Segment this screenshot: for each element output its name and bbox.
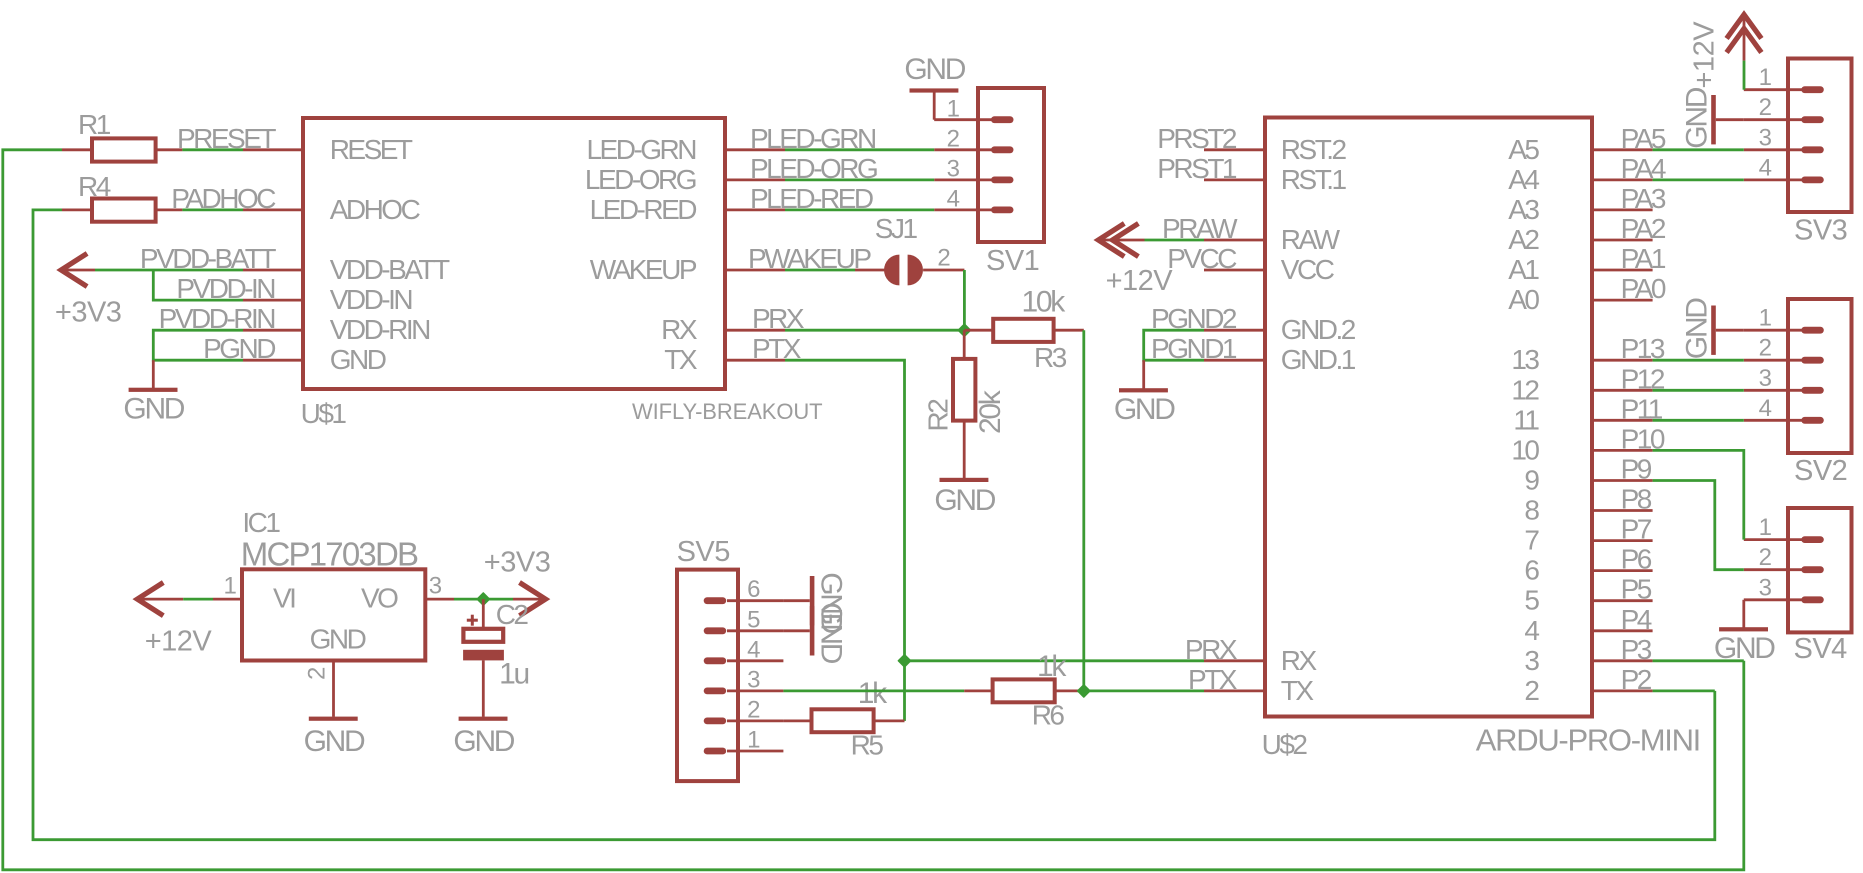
supply +12V arrow at U$2 RAW <box>1098 223 1124 256</box>
svg-text:P3: P3 <box>1621 634 1652 665</box>
svg-text:VDD-RIN: VDD-RIN <box>330 314 429 345</box>
svg-text:VDD-IN: VDD-IN <box>330 284 412 315</box>
svg-text:GND: GND <box>904 53 965 86</box>
svg-text:PA3: PA3 <box>1621 183 1666 214</box>
svg-text:ADHOC: ADHOC <box>330 194 421 225</box>
U$1 right pins <box>724 148 785 151</box>
SV3 pads <box>1801 86 1824 93</box>
svg-text:1: 1 <box>224 573 237 600</box>
svg-text:1: 1 <box>1759 305 1772 332</box>
svg-text:VI: VI <box>273 583 295 614</box>
svg-text:PRESET: PRESET <box>177 123 276 154</box>
svg-text:WIFLY-BREAKOUT: WIFLY-BREAKOUT <box>632 399 823 424</box>
svg-text:2: 2 <box>1524 675 1539 706</box>
svg-text:SV2: SV2 <box>1794 455 1847 487</box>
ground symbol below R2 <box>940 478 989 482</box>
supply +12V arrow above SV3 <box>1727 15 1762 39</box>
capacitor C2 (polarized) <box>482 599 485 629</box>
svg-text:P9: P9 <box>1621 454 1652 485</box>
svg-text:SJ1: SJ1 <box>875 213 918 244</box>
junction PTX-R6 node <box>1078 685 1090 697</box>
svg-text:2: 2 <box>937 245 950 272</box>
wire IC1 VO to C2 junction <box>454 598 513 601</box>
svg-text:1: 1 <box>1759 514 1772 541</box>
svg-text:20k: 20k <box>974 389 1007 434</box>
svg-text:5: 5 <box>747 606 760 633</box>
wire P3 net <box>1653 659 1744 662</box>
svg-text:4: 4 <box>1524 615 1539 646</box>
svg-text:U$2: U$2 <box>1262 729 1308 760</box>
wire PRESET net R1 to U$1 <box>182 148 243 151</box>
wire PVDD-IN branch <box>153 270 243 300</box>
svg-text:R1: R1 <box>78 109 111 140</box>
svg-text:GND: GND <box>1114 393 1175 426</box>
ground symbol below C2 <box>459 717 508 721</box>
ground symbol below U$2 GND pins <box>1142 360 1145 388</box>
svg-text:4: 4 <box>947 186 960 213</box>
wire PA4 net <box>1653 178 1744 181</box>
svg-text:6: 6 <box>1524 555 1539 586</box>
svg-text:GND: GND <box>934 484 995 517</box>
wire PWAKEUP net U$1 WAKEUP to SJ1 <box>785 269 855 272</box>
wire PRESET net R1 left to bottom loop to U$2 P3 <box>3 150 1744 870</box>
voltage regulator IC1 box <box>242 569 425 660</box>
svg-text:1: 1 <box>1759 64 1772 91</box>
IC1 pin 1 lead <box>213 598 242 601</box>
svg-text:PADHOC: PADHOC <box>171 183 276 214</box>
wire P9 net <box>1653 481 1744 570</box>
wire PRAW net <box>1145 239 1205 242</box>
resistor R5 <box>812 709 874 732</box>
junction PRX node <box>958 324 970 336</box>
svg-text:RAW: RAW <box>1281 224 1341 255</box>
resistor R4 <box>92 199 156 222</box>
svg-text:10: 10 <box>1511 434 1539 465</box>
svg-text:8: 8 <box>1524 495 1539 526</box>
wire SV5 pin 3 to R6 <box>783 690 964 693</box>
svg-text:P2: P2 <box>1621 664 1652 695</box>
resistor R2 <box>953 359 975 421</box>
svg-text:RST.1: RST.1 <box>1281 164 1347 195</box>
svg-text:A1: A1 <box>1508 254 1539 285</box>
svg-text:5: 5 <box>1524 585 1539 616</box>
ground symbol below U$1 <box>152 360 155 388</box>
svg-text:7: 7 <box>1524 525 1539 556</box>
svg-text:R4: R4 <box>78 171 111 202</box>
U$2 right pins <box>1591 148 1653 151</box>
supply +3V3 arrow right <box>520 583 546 616</box>
svg-text:P4: P4 <box>1621 604 1652 635</box>
connector SV2 box <box>1788 299 1852 453</box>
svg-text:9: 9 <box>1524 465 1539 496</box>
svg-text:VO: VO <box>361 583 398 614</box>
svg-text:+12V: +12V <box>145 625 213 657</box>
svg-text:RX: RX <box>661 314 698 345</box>
connector SV3 box <box>1788 59 1852 213</box>
SV5 pin 6 lead to ground <box>783 599 809 602</box>
wire PADHOC net R4 to U$1 <box>182 208 243 211</box>
wire PADHOC net R4 left to bottom loop to U$2 P2 <box>33 210 1715 840</box>
svg-text:13: 13 <box>1511 344 1539 375</box>
wire R6 junction to U$2 TX <box>1084 690 1204 693</box>
svg-text:GND: GND <box>330 344 386 375</box>
SJ1 pin 2 lead <box>923 269 964 272</box>
svg-text:PGND: PGND <box>203 333 275 364</box>
svg-text:TX: TX <box>1281 675 1315 706</box>
svg-text:GND: GND <box>310 624 366 655</box>
SV5 pads <box>704 597 727 604</box>
svg-text:4: 4 <box>1759 395 1772 422</box>
svg-text:P7: P7 <box>1621 514 1652 545</box>
svg-text:GND.1: GND.1 <box>1281 344 1356 375</box>
ground symbol rotated at SV5 pin 5 <box>810 606 815 655</box>
resistor R3 <box>993 319 1053 342</box>
svg-text:R6: R6 <box>1032 700 1065 731</box>
svg-text:PVDD-BATT: PVDD-BATT <box>140 243 276 274</box>
wire +12V to SV3 pin 1 <box>1743 61 1746 90</box>
svg-text:+3V3: +3V3 <box>55 297 122 329</box>
svg-text:PRX: PRX <box>752 303 805 334</box>
svg-text:2: 2 <box>1759 94 1772 121</box>
svg-text:A2: A2 <box>1508 224 1539 255</box>
svg-text:6: 6 <box>747 576 760 603</box>
SV2 pin 1 lead to ground <box>1716 329 1744 332</box>
IC1 pin 2 GND lead <box>332 660 335 716</box>
wire P10 net <box>1653 450 1744 539</box>
svg-text:3: 3 <box>1759 124 1772 151</box>
svg-text:4: 4 <box>747 636 760 663</box>
svg-text:IC1: IC1 <box>242 507 280 538</box>
wire PLED-GRN net <box>785 148 934 151</box>
svg-text:RST.2: RST.2 <box>1281 134 1347 165</box>
svg-text:LED-ORG: LED-ORG <box>585 164 696 195</box>
svg-text:PVDD-RIN: PVDD-RIN <box>159 303 275 334</box>
svg-text:A5: A5 <box>1508 134 1539 165</box>
wire +12V to IC1 VI <box>183 598 213 601</box>
svg-text:LED-GRN: LED-GRN <box>586 134 695 165</box>
svg-text:3: 3 <box>947 156 960 183</box>
svg-text:PTX: PTX <box>752 333 802 364</box>
svg-text:PA1: PA1 <box>1621 243 1666 274</box>
svg-text:PRX: PRX <box>1185 634 1238 665</box>
solder jumper SJ1 <box>884 255 899 286</box>
svg-text:GND: GND <box>304 725 365 758</box>
svg-text:LED-RED: LED-RED <box>590 194 697 225</box>
C2 plus sign <box>467 619 478 622</box>
svg-text:3: 3 <box>1524 645 1539 676</box>
wire P2 net <box>1653 690 1715 693</box>
svg-text:U$1: U$1 <box>301 398 347 429</box>
svg-text:PRST2: PRST2 <box>1157 123 1237 154</box>
U$2 left pins <box>1204 148 1266 151</box>
svg-text:P6: P6 <box>1621 544 1652 575</box>
svg-text:PA0: PA0 <box>1621 273 1666 304</box>
svg-text:12: 12 <box>1511 374 1539 405</box>
svg-text:3: 3 <box>429 573 442 600</box>
svg-text:R2: R2 <box>923 399 954 432</box>
svg-text:1: 1 <box>947 95 960 122</box>
svg-text:2: 2 <box>303 667 330 680</box>
svg-text:R3: R3 <box>1034 342 1067 373</box>
svg-text:1k: 1k <box>858 677 888 710</box>
svg-text:RX: RX <box>1281 645 1318 676</box>
svg-text:3: 3 <box>1759 574 1772 601</box>
IC U$2 ARDU-PRO-MINI box <box>1265 118 1592 717</box>
svg-text:A3: A3 <box>1508 194 1539 225</box>
U$1 left pins <box>243 148 304 151</box>
svg-text:3: 3 <box>747 666 760 693</box>
wire junction to U$2 RX <box>905 659 1205 662</box>
connector SV1 box <box>978 88 1044 242</box>
svg-text:MCP1703DB: MCP1703DB <box>241 536 418 573</box>
SV2 pads <box>1801 327 1824 334</box>
junction PTX node <box>898 655 910 667</box>
svg-text:R5: R5 <box>851 730 884 761</box>
svg-text:3: 3 <box>1759 365 1772 392</box>
svg-text:1u: 1u <box>499 658 528 691</box>
svg-text:GND: GND <box>123 393 184 426</box>
supply +3V3 arrow <box>61 253 87 286</box>
svg-text:4: 4 <box>1759 154 1772 181</box>
IC1 pin 3 lead <box>425 598 454 601</box>
svg-text:1k: 1k <box>1037 650 1067 683</box>
wire R3 right down to R6 junction <box>1082 330 1085 691</box>
svg-text:P8: P8 <box>1621 484 1652 515</box>
svg-text:C2: C2 <box>496 599 529 630</box>
wire P12 net <box>1653 389 1744 392</box>
svg-text:PRST1: PRST1 <box>1157 153 1237 184</box>
connector SV4 box <box>1788 508 1852 632</box>
svg-text:WAKEUP: WAKEUP <box>590 254 697 285</box>
svg-text:SV5: SV5 <box>677 536 730 568</box>
wire PLED-ORG net <box>785 178 934 181</box>
svg-text:VCC: VCC <box>1281 254 1335 285</box>
svg-text:GND: GND <box>1681 87 1714 148</box>
supply +12V arrow at IC1 input <box>137 583 163 616</box>
wire PA5 net <box>1653 148 1744 151</box>
svg-text:2: 2 <box>947 125 960 152</box>
svg-text:+12V: +12V <box>1689 21 1721 89</box>
svg-text:2: 2 <box>1759 335 1772 362</box>
wire junction down to R5 <box>903 661 906 721</box>
wire PTX net U$1 TX down to junction <box>785 360 905 661</box>
wire PGND2 net <box>1144 330 1204 360</box>
svg-text:SV3: SV3 <box>1794 215 1847 247</box>
svg-text:GND: GND <box>815 602 848 663</box>
SV3 pin 2 lead to ground <box>1716 118 1744 121</box>
svg-text:TX: TX <box>664 344 698 375</box>
svg-text:A0: A0 <box>1508 284 1539 315</box>
svg-text:+3V3: +3V3 <box>484 547 551 579</box>
svg-text:PLED-RED: PLED-RED <box>750 183 873 214</box>
junction +3V3 node <box>477 593 489 605</box>
wire PLED-RED net <box>785 208 934 211</box>
wire P11 net <box>1653 419 1744 422</box>
wire PVDD-BATT net <box>95 269 243 272</box>
wire P13 net <box>1653 359 1744 362</box>
wire PRX net U$1 RX to junction <box>785 329 964 332</box>
SV4 pads <box>1801 536 1824 543</box>
svg-text:SV1: SV1 <box>986 245 1039 277</box>
ground symbol above SV1 pin 1 <box>933 91 936 120</box>
svg-text:VDD-BATT: VDD-BATT <box>330 254 450 285</box>
svg-text:PVCC: PVCC <box>1167 243 1237 274</box>
connector SV5 box <box>677 570 738 782</box>
ground symbol below IC1 <box>309 717 358 721</box>
svg-text:10k: 10k <box>1022 286 1067 319</box>
svg-text:P5: P5 <box>1621 574 1652 605</box>
svg-text:1: 1 <box>747 727 760 754</box>
SV5 pin 5 lead to ground <box>783 629 809 632</box>
svg-text:+12V: +12V <box>1106 265 1174 297</box>
svg-text:GND: GND <box>1681 298 1714 359</box>
svg-text:PA2: PA2 <box>1621 213 1666 244</box>
ground symbol below SV4 pin 3 <box>1742 600 1745 628</box>
svg-text:PVDD-IN: PVDD-IN <box>176 273 274 304</box>
svg-text:GND.2: GND.2 <box>1281 314 1356 345</box>
ground symbol rotated at SV5 pin 6 <box>810 576 815 625</box>
svg-text:PWAKEUP: PWAKEUP <box>748 243 871 274</box>
svg-text:A4: A4 <box>1508 164 1539 195</box>
svg-text:PLED-GRN: PLED-GRN <box>750 123 875 154</box>
wire PVDD-RIN net <box>153 330 243 360</box>
resistor R1 <box>92 138 156 161</box>
svg-text:2: 2 <box>747 696 760 723</box>
svg-text:SV4: SV4 <box>1794 633 1848 665</box>
ground symbol rotated at SV3 pin 2 <box>1711 95 1716 144</box>
SV1 pads <box>991 116 1014 123</box>
ground symbol rotated at SV2 pin 1 <box>1711 306 1716 355</box>
resistor R6 <box>993 679 1055 702</box>
svg-text:GND: GND <box>453 725 514 758</box>
svg-text:ARDU-PRO-MINI: ARDU-PRO-MINI <box>1476 723 1700 758</box>
wire SJ1 to PRX junction <box>963 270 966 330</box>
svg-text:2: 2 <box>1759 544 1772 571</box>
IC U$1 WIFLY-BREAKOUT box <box>303 118 725 389</box>
svg-text:PTX: PTX <box>1188 664 1238 695</box>
svg-text:PLED-ORG: PLED-ORG <box>750 153 877 184</box>
svg-text:RESET: RESET <box>330 134 413 165</box>
svg-text:11: 11 <box>1513 404 1539 435</box>
